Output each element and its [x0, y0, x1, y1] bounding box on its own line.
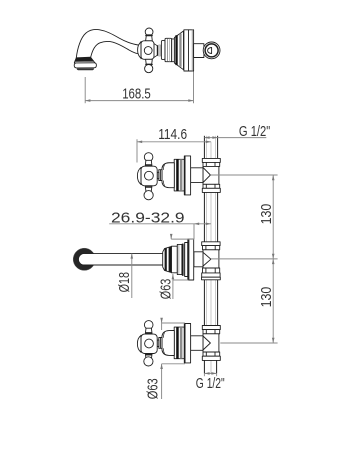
- svg-text:130: 130: [258, 204, 275, 225]
- svg-text:Ø18: Ø18: [116, 272, 133, 292]
- svg-text:168.5: 168.5: [122, 85, 151, 102]
- svg-text:26.9-32.9: 26.9-32.9: [111, 209, 185, 226]
- svg-text:114.6: 114.6: [158, 126, 187, 143]
- svg-text:Ø63: Ø63: [145, 378, 162, 399]
- svg-text:G 1/2": G 1/2": [239, 123, 270, 140]
- svg-text:G 1/2": G 1/2": [196, 375, 225, 392]
- svg-text:Ø63: Ø63: [157, 279, 174, 299]
- svg-text:130: 130: [258, 287, 275, 308]
